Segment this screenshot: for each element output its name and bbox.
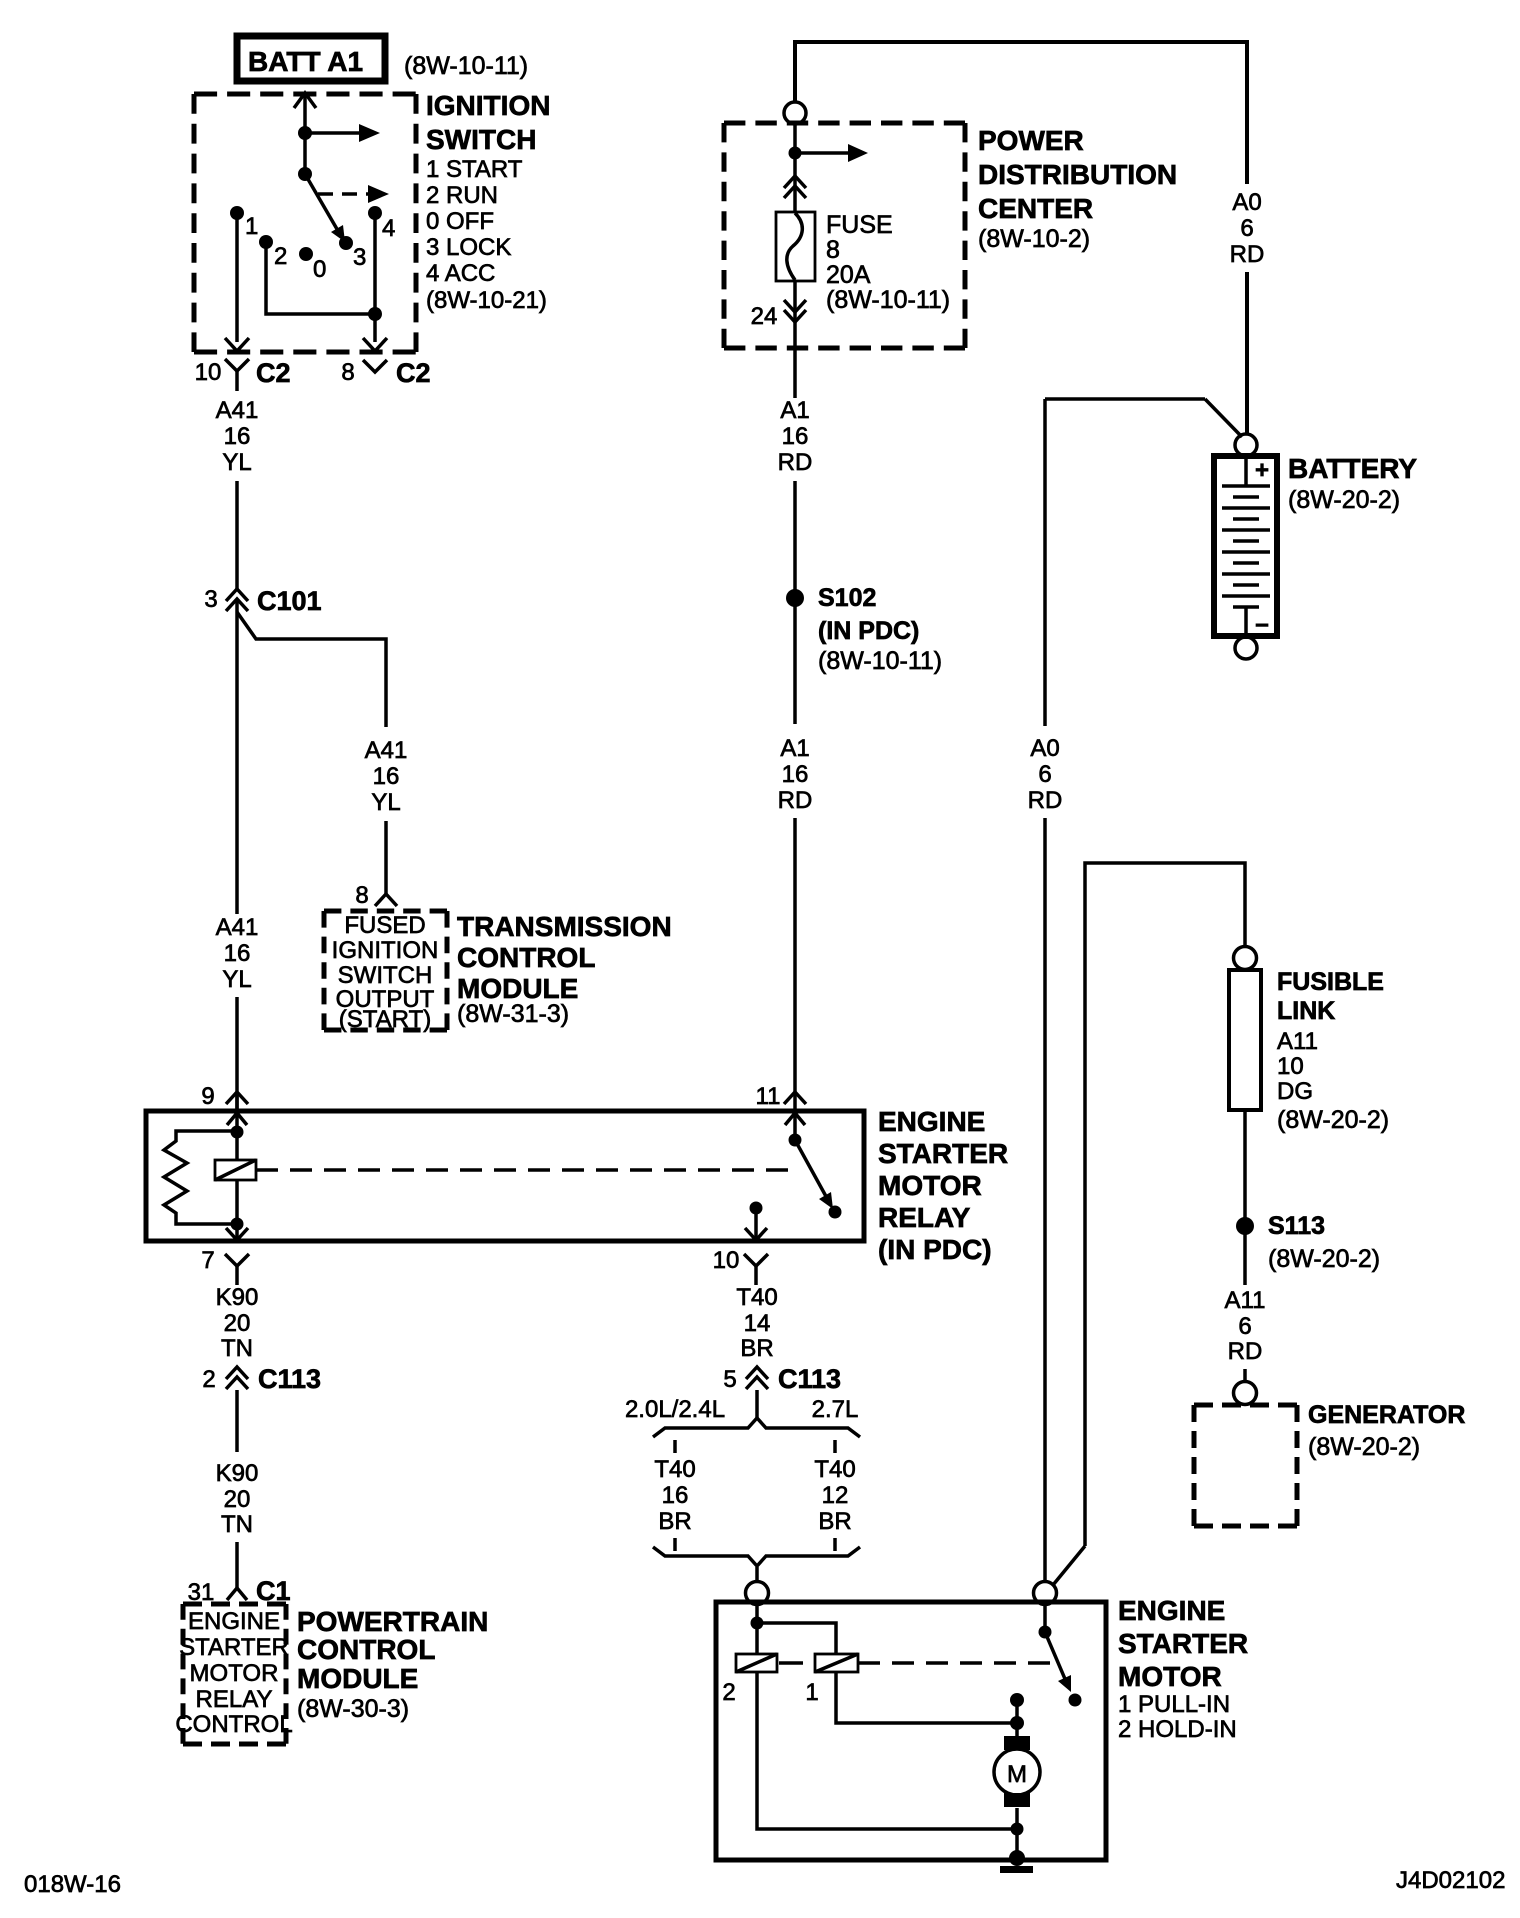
svg-text:RELAY: RELAY bbox=[196, 1686, 273, 1713]
dashed stub 2.7L lower bbox=[833, 1538, 837, 1551]
relay pin 10 connector bbox=[713, 1208, 768, 1285]
starter solenoid terminal eyelet bbox=[746, 1582, 769, 1605]
svg-text:12: 12 bbox=[822, 1482, 849, 1509]
svg-text:YL: YL bbox=[371, 789, 400, 816]
svg-text:0: 0 bbox=[313, 256, 326, 283]
svg-text:MOTOR: MOTOR bbox=[190, 1660, 279, 1687]
engine option split brace (top) bbox=[653, 1418, 860, 1437]
svg-text:A11: A11 bbox=[1277, 1028, 1318, 1055]
svg-text:6: 6 bbox=[1038, 761, 1051, 788]
svg-text:7: 7 bbox=[201, 1247, 214, 1274]
node BATT A1 feed box bbox=[237, 36, 385, 81]
svg-text:RD: RD bbox=[1230, 241, 1265, 268]
fuse cavity connector (double chevron up) bbox=[784, 176, 806, 198]
svg-text:S102: S102 bbox=[818, 584, 876, 612]
svg-text:16: 16 bbox=[782, 423, 809, 450]
splice S102 bbox=[786, 589, 804, 607]
svg-text:IGNITION: IGNITION bbox=[332, 937, 439, 964]
generator terminal eyelet bbox=[1234, 1382, 1257, 1405]
svg-text:(8W-10-21): (8W-10-21) bbox=[426, 287, 547, 314]
svg-text:10: 10 bbox=[1277, 1053, 1304, 1080]
wire label T40 16 BR bbox=[654, 1456, 695, 1535]
svg-text:ENGINE: ENGINE bbox=[188, 1608, 280, 1635]
svg-text:J4D02102: J4D02102 bbox=[1396, 1867, 1505, 1894]
PDC name label bbox=[978, 125, 1177, 253]
svg-text:A41: A41 bbox=[216, 914, 259, 941]
node relay switch pivot bbox=[789, 1134, 802, 1147]
fuse name label bbox=[826, 211, 950, 314]
svg-text:5: 5 bbox=[723, 1366, 736, 1393]
svg-text:DISTRIBUTION: DISTRIBUTION bbox=[978, 159, 1177, 190]
svg-text:RD: RD bbox=[1228, 1338, 1263, 1365]
svg-text:FUSED: FUSED bbox=[344, 912, 425, 939]
svg-text:9: 9 bbox=[201, 1083, 214, 1110]
wire label T40 14 BR bbox=[736, 1284, 777, 1337]
svg-text:16: 16 bbox=[662, 1482, 689, 1509]
svg-text:018W-16: 018W-16 bbox=[24, 1871, 121, 1898]
svg-text:(8W-10-2): (8W-10-2) bbox=[978, 225, 1090, 253]
connector C113 pin 2 bbox=[202, 1364, 321, 1394]
svg-text:C2: C2 bbox=[396, 358, 431, 388]
svg-text:YL: YL bbox=[222, 966, 251, 993]
wire A0 down run upper bbox=[1043, 399, 1047, 726]
ignition switch feed arrow from BATT A1 bbox=[294, 93, 316, 174]
svg-text:3: 3 bbox=[353, 244, 366, 271]
node motor feed junction bbox=[1010, 1716, 1024, 1730]
PCM name label bbox=[297, 1606, 488, 1723]
svg-text:S113: S113 bbox=[1268, 1212, 1325, 1240]
splice S113 bbox=[1236, 1217, 1254, 1235]
svg-text:SWITCH: SWITCH bbox=[426, 124, 536, 155]
transmission control module dashed box bbox=[324, 911, 447, 1030]
dashed actuation link relay bbox=[256, 1168, 790, 1172]
svg-text:3: 3 bbox=[204, 586, 217, 613]
battery name label bbox=[1288, 453, 1417, 514]
svg-text:MODULE: MODULE bbox=[297, 1663, 418, 1694]
wire A41 from C2 to C101 bbox=[235, 481, 239, 589]
svg-text:4 ACC: 4 ACC bbox=[426, 260, 495, 287]
wire A11 below S113 bbox=[1243, 1234, 1247, 1285]
svg-text:CONTROL: CONTROL bbox=[297, 1634, 435, 1665]
svg-text:TRANSMISSION: TRANSMISSION bbox=[457, 911, 672, 942]
svg-text:TN: TN bbox=[221, 1511, 253, 1538]
svg-text:BATT A1: BATT A1 bbox=[248, 46, 363, 77]
TCM internal function label bbox=[332, 912, 439, 1033]
svg-text:4: 4 bbox=[382, 215, 395, 242]
svg-text:20: 20 bbox=[224, 1486, 251, 1513]
svg-text:6: 6 bbox=[1240, 215, 1253, 242]
svg-text:YL: YL bbox=[222, 449, 251, 476]
svg-text:(8W-10-11): (8W-10-11) bbox=[818, 647, 942, 675]
node relay coil top junction bbox=[231, 1126, 244, 1139]
ignition switch wiper blade to START contact bbox=[305, 174, 345, 242]
wire label A41 16 YL (lower left) bbox=[216, 914, 259, 993]
svg-text:GENERATOR: GENERATOR bbox=[1308, 1401, 1465, 1429]
svg-text:+: + bbox=[1255, 457, 1269, 484]
relay name label bbox=[878, 1106, 1008, 1265]
svg-text:14: 14 bbox=[744, 1310, 771, 1337]
wire branch lower segment bbox=[384, 821, 388, 894]
svg-text:2: 2 bbox=[722, 1679, 735, 1706]
svg-text:RD: RD bbox=[1028, 787, 1063, 814]
relay coil element bbox=[215, 1132, 256, 1224]
svg-text:STARTER: STARTER bbox=[179, 1634, 289, 1661]
wire A41 below C101 bbox=[235, 600, 239, 914]
wire A41 to relay pin 9 bbox=[235, 997, 239, 1111]
svg-text:(8W-20-2): (8W-20-2) bbox=[1288, 486, 1400, 514]
svg-text:6: 6 bbox=[1238, 1313, 1251, 1340]
resistor inside relay bbox=[164, 1131, 237, 1224]
svg-text:A11: A11 bbox=[1225, 1287, 1266, 1314]
svg-text:T40: T40 bbox=[736, 1284, 777, 1311]
svg-text:1: 1 bbox=[245, 213, 258, 240]
starter switch blade bbox=[1045, 1632, 1071, 1692]
terminal eyelet at PDC bbox=[784, 102, 806, 124]
contact 0 OFF bbox=[299, 247, 313, 261]
wire below fuse bbox=[793, 281, 797, 398]
svg-text:ENGINE: ENGINE bbox=[1118, 1595, 1225, 1626]
wire to battery positive bbox=[1245, 272, 1249, 435]
generator name label bbox=[1308, 1401, 1465, 1461]
svg-text:(8W-30-3): (8W-30-3) bbox=[297, 1695, 409, 1723]
wire A0 to starter motor terminal bbox=[1043, 818, 1047, 1582]
splice S102 label bbox=[818, 584, 942, 675]
wire label K90 20 TN (lower) bbox=[216, 1460, 259, 1538]
wire K90 to PCM bbox=[235, 1542, 239, 1588]
svg-text:A0: A0 bbox=[1232, 189, 1261, 216]
relay pin 11 connector bbox=[756, 1083, 806, 1140]
svg-text:16: 16 bbox=[373, 763, 400, 790]
wire label A0 6 RD (top right) bbox=[1230, 189, 1265, 268]
svg-text:CONTROL: CONTROL bbox=[175, 1711, 292, 1738]
wire A1 to relay pin 11 bbox=[793, 818, 797, 1092]
svg-text:TN: TN bbox=[221, 1335, 253, 1362]
svg-text:2: 2 bbox=[274, 243, 287, 270]
svg-text:BR: BR bbox=[740, 1335, 773, 1362]
wire brace to starter solenoid terminal bbox=[755, 1567, 759, 1582]
relay pin 9 connector bbox=[201, 1083, 248, 1132]
arrow to other PDC circuits bbox=[795, 144, 868, 162]
splice S113 label bbox=[1268, 1212, 1380, 1273]
connector C2 pin 8 bbox=[341, 358, 430, 388]
wire battery positive to starter branch bbox=[1045, 399, 1242, 437]
fuse 8 20A bbox=[776, 212, 815, 281]
dashed stub 2.0L upper bbox=[673, 1440, 677, 1453]
svg-text:FUSE: FUSE bbox=[826, 211, 893, 239]
svg-text:IGNITION: IGNITION bbox=[426, 90, 550, 121]
ground G1 bbox=[1000, 1850, 1033, 1873]
svg-text:(8W-20-2): (8W-20-2) bbox=[1277, 1106, 1389, 1134]
wire label K90 20 TN (upper) bbox=[216, 1284, 259, 1362]
wire A1 below S102 bbox=[793, 604, 797, 724]
motor M1 bbox=[994, 1723, 1040, 1829]
svg-text:1: 1 bbox=[805, 1679, 818, 1706]
wire label A1 16 RD (lower) bbox=[778, 735, 813, 814]
wire B+ to starter switch bbox=[1043, 1605, 1047, 1632]
svg-text:C2: C2 bbox=[256, 358, 291, 388]
svg-text:T40: T40 bbox=[814, 1456, 855, 1483]
engine starter motor box outline bbox=[716, 1602, 1106, 1860]
engine option merge brace (bottom) bbox=[653, 1547, 860, 1566]
svg-text:A41: A41 bbox=[365, 737, 408, 764]
relay switch blade bbox=[795, 1140, 833, 1209]
node motor return junction bbox=[1011, 1823, 1024, 1836]
svg-text:16: 16 bbox=[224, 423, 251, 450]
wire label A41 16 YL (upper) bbox=[216, 397, 259, 476]
svg-text:RELAY: RELAY bbox=[878, 1202, 971, 1233]
svg-text:K90: K90 bbox=[216, 1284, 259, 1311]
wire solenoid feed inside starter bbox=[755, 1605, 759, 1654]
node feed junction upper bbox=[298, 126, 312, 140]
fusible link top eyelet bbox=[1234, 947, 1257, 970]
wire label T40 12 BR bbox=[814, 1456, 855, 1535]
svg-text:2.7L: 2.7L bbox=[812, 1396, 859, 1423]
svg-text:16: 16 bbox=[224, 940, 251, 967]
starter B+ terminal eyelet bbox=[1034, 1582, 1057, 1605]
svg-text:CONTROL: CONTROL bbox=[457, 942, 595, 973]
wire label A0 6 RD (middle) bbox=[1028, 735, 1063, 814]
wire PDC bus bbox=[793, 124, 797, 213]
fusible link F1 bbox=[1229, 970, 1261, 1110]
svg-text:(8W-31-3): (8W-31-3) bbox=[457, 1000, 569, 1028]
connector pin 8 at TCM bbox=[355, 882, 397, 909]
svg-text:20: 20 bbox=[224, 1310, 251, 1337]
battery negative eyelet bbox=[1235, 637, 1257, 659]
generator dashed box bbox=[1194, 1405, 1297, 1526]
wire hold-in coil return bbox=[757, 1672, 1017, 1829]
wire contact4 to pin8 bbox=[363, 218, 387, 351]
svg-text:BATTERY: BATTERY bbox=[1288, 453, 1417, 484]
wire to ground bbox=[1015, 1829, 1019, 1858]
svg-text:RD: RD bbox=[778, 449, 813, 476]
dashed actuation link starter bbox=[779, 1661, 803, 1665]
svg-text:K90: K90 bbox=[216, 1460, 259, 1487]
connector C101 pin 3 bbox=[204, 586, 321, 616]
svg-text:C113: C113 bbox=[778, 1364, 841, 1394]
svg-text:A0: A0 bbox=[1030, 735, 1059, 762]
wire A11 below fusible link bbox=[1243, 1110, 1247, 1218]
node PDC bus junction bbox=[789, 147, 802, 160]
node relay coil bottom junction bbox=[231, 1218, 244, 1231]
svg-text:BR: BR bbox=[658, 1508, 691, 1535]
svg-text:24: 24 bbox=[751, 303, 778, 330]
PCM internal function label bbox=[175, 1608, 292, 1738]
svg-text:1 PULL-IN: 1 PULL-IN bbox=[1118, 1691, 1230, 1718]
arrow to other ignition switch circuits (solid) bbox=[305, 124, 380, 142]
wire pull-in coil to motor junction bbox=[836, 1672, 1017, 1723]
svg-text:T40: T40 bbox=[654, 1456, 695, 1483]
svg-text:ENGINE: ENGINE bbox=[878, 1106, 985, 1137]
wire to pull-in coil bbox=[757, 1623, 836, 1654]
wire K90 below C113 bbox=[235, 1390, 239, 1452]
contact 3 LOCK bbox=[339, 236, 353, 250]
svg-text:DG: DG bbox=[1277, 1078, 1313, 1105]
svg-text:LINK: LINK bbox=[1277, 997, 1335, 1025]
node relay blade end bbox=[829, 1206, 842, 1219]
svg-text:2 HOLD-IN: 2 HOLD-IN bbox=[1118, 1716, 1237, 1743]
node starter switch contact bbox=[1010, 1693, 1024, 1707]
svg-text:CENTER: CENTER bbox=[978, 193, 1093, 224]
svg-text:STARTER: STARTER bbox=[878, 1138, 1008, 1169]
wire below C113 pin 5 bbox=[755, 1390, 759, 1420]
svg-text:MOTOR: MOTOR bbox=[878, 1170, 982, 1201]
pull-in coil 1 bbox=[805, 1654, 858, 1706]
wire battery feed top run bbox=[795, 42, 1247, 184]
svg-text:POWER: POWER bbox=[978, 125, 1084, 156]
svg-text:(8W-10-11): (8W-10-11) bbox=[404, 52, 528, 80]
engine starter motor relay box outline bbox=[146, 1111, 864, 1241]
node junction contact4 bbox=[368, 307, 382, 321]
node starter blade end bbox=[1069, 1694, 1082, 1707]
svg-text:C113: C113 bbox=[258, 1364, 321, 1394]
contact 4 ACC bbox=[368, 206, 382, 220]
svg-text:10: 10 bbox=[713, 1247, 740, 1274]
svg-text:3 LOCK: 3 LOCK bbox=[426, 234, 511, 261]
node wiper pivot bbox=[298, 167, 312, 181]
contact 2 RUN bbox=[259, 235, 273, 249]
svg-text:C101: C101 bbox=[257, 586, 322, 616]
wire A11 to generator bbox=[1243, 1369, 1247, 1382]
wire label A1 16 RD (upper) bbox=[778, 397, 813, 476]
wire generator branch diagonal to B+ bbox=[1053, 1546, 1085, 1585]
svg-text:A1: A1 bbox=[780, 397, 809, 424]
svg-text:SWITCH: SWITCH bbox=[338, 962, 433, 989]
powertrain control module dashed box bbox=[183, 1604, 286, 1744]
svg-text:11: 11 bbox=[756, 1083, 781, 1110]
svg-text:8: 8 bbox=[341, 359, 354, 386]
contact 1 START bbox=[230, 206, 244, 220]
svg-text:0 OFF: 0 OFF bbox=[426, 208, 494, 235]
power distribution center dashed box bbox=[724, 123, 965, 348]
wire label A11 6 RD bbox=[1225, 1287, 1266, 1365]
dashed travel arrow of wiper bbox=[318, 185, 389, 203]
svg-text:A1: A1 bbox=[780, 735, 809, 762]
svg-text:8: 8 bbox=[826, 236, 840, 264]
connector C1 pin 31 at PCM bbox=[188, 1576, 291, 1606]
svg-text:(IN PDC): (IN PDC) bbox=[878, 1234, 992, 1265]
svg-text:2 RUN: 2 RUN bbox=[426, 182, 498, 209]
svg-text:M: M bbox=[1007, 1761, 1027, 1788]
node starter switch pivot bbox=[1039, 1626, 1052, 1639]
svg-text:MOTOR: MOTOR bbox=[1118, 1661, 1222, 1692]
fusible link name label bbox=[1277, 968, 1389, 1134]
PDC pin 24 connector (double chevron down) bbox=[751, 300, 806, 330]
hold-in coil 2 bbox=[722, 1654, 777, 1706]
ignition switch name label bbox=[426, 90, 550, 314]
svg-text:A41: A41 bbox=[216, 397, 259, 424]
svg-text:1 START: 1 START bbox=[426, 156, 523, 183]
TCM name label bbox=[457, 911, 672, 1028]
svg-text:−: − bbox=[1255, 612, 1269, 639]
wire A1 to splice S102 bbox=[793, 481, 797, 592]
svg-text:16: 16 bbox=[782, 761, 809, 788]
dashed stub 2.0L lower bbox=[673, 1538, 677, 1551]
connector C2 pin 10 bbox=[195, 358, 291, 391]
svg-text:2: 2 bbox=[202, 1366, 215, 1393]
wire generator branch top run bbox=[1085, 863, 1245, 1546]
battery positive eyelet bbox=[1235, 434, 1257, 456]
svg-text:(8W-20-2): (8W-20-2) bbox=[1268, 1245, 1380, 1273]
wire branch to transmission control module bbox=[237, 612, 386, 727]
node solenoid coil split bbox=[751, 1617, 764, 1630]
ignition switch S1 dashed outline bbox=[194, 94, 416, 352]
svg-text:(8W-20-2): (8W-20-2) bbox=[1308, 1433, 1420, 1461]
connector C113 pin 5 bbox=[723, 1364, 841, 1394]
svg-text:POWERTRAIN: POWERTRAIN bbox=[297, 1606, 488, 1637]
wire contact to motor junction bbox=[1015, 1700, 1019, 1723]
wire contact2 to junction bbox=[266, 248, 372, 314]
svg-text:STARTER: STARTER bbox=[1118, 1628, 1248, 1659]
relay pin 7 connector bbox=[201, 1224, 249, 1285]
svg-text:(8W-10-11): (8W-10-11) bbox=[826, 286, 950, 314]
svg-text:FUSIBLE: FUSIBLE bbox=[1277, 968, 1384, 996]
starter name label bbox=[1118, 1595, 1248, 1743]
svg-text:2.0L/2.4L: 2.0L/2.4L bbox=[625, 1396, 725, 1423]
wire label A41 16 YL (branch) bbox=[365, 737, 408, 816]
svg-text:BR: BR bbox=[818, 1508, 851, 1535]
svg-text:(START): (START) bbox=[339, 1006, 431, 1033]
svg-text:8: 8 bbox=[355, 882, 368, 909]
svg-text:10: 10 bbox=[195, 359, 222, 386]
dashed stub 2.7L upper bbox=[833, 1440, 837, 1453]
node relay output contact bbox=[750, 1202, 763, 1215]
battery B1 bbox=[1214, 456, 1277, 639]
wire contact1 to pin10 bbox=[225, 218, 249, 351]
svg-text:RD: RD bbox=[778, 787, 813, 814]
svg-text:(IN PDC): (IN PDC) bbox=[818, 617, 919, 645]
svg-text:20A: 20A bbox=[826, 261, 871, 289]
